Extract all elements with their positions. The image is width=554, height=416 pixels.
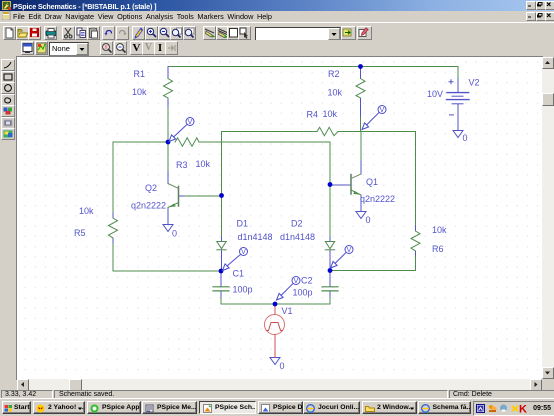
node B2 (Q2 base): [219, 193, 224, 198]
svg-text:R4: R4: [307, 110, 319, 120]
left tool palette: [0, 56, 16, 390]
ground 0 at Q2 emitter: [163, 225, 173, 232]
wire top rail: [168, 67, 458, 80]
wire R1 bottom to node VC2: [167, 107, 169, 142]
svg-text:K: K: [519, 403, 527, 414]
transistor Q2: [168, 184, 179, 208]
node D1/C1: [219, 269, 224, 274]
node R2/V2 top rail junction: [358, 64, 363, 69]
svg-text:R6: R6: [432, 244, 444, 254]
diode D1: [217, 242, 226, 250]
svg-text:R2: R2: [328, 69, 340, 79]
svg-text:10k: 10k: [432, 225, 447, 235]
svg-text:10k: 10k: [79, 206, 94, 216]
corner: [542, 379, 554, 390]
pin D1: [221, 237, 223, 271]
resistor R1: [164, 79, 173, 99]
svg-text:0: 0: [172, 229, 177, 239]
voltage marker V at node D1/C1: [223, 248, 248, 271]
h scrollbar: [17, 379, 542, 390]
wire bottom rail C1 to C2 via V1 node: [221, 297, 330, 304]
svg-text:10V: 10V: [427, 89, 443, 99]
svg-text:R5: R5: [74, 228, 86, 238]
svg-text:V1: V1: [282, 306, 293, 316]
pin R2 top: [360, 67, 362, 79]
svg-text:0: 0: [463, 133, 468, 143]
svg-text:V2: V2: [469, 78, 480, 88]
resistor R4: [317, 127, 338, 135]
node VC2 (R1/R3/Q2 collector): [166, 140, 171, 145]
resistor R6: [411, 231, 420, 251]
resistor R5: [109, 218, 118, 238]
svg-text:100p: 100p: [293, 288, 313, 298]
wire node VC1 to Q1 collector: [360, 132, 362, 162]
svg-text:d1n4148: d1n4148: [280, 232, 315, 242]
pin C1: [220, 271, 222, 297]
wire R4 left to Q2 base node: [222, 132, 318, 196]
wire node B2 to D1 anode: [221, 196, 223, 238]
svg-text:Q1: Q1: [366, 177, 378, 187]
svg-text:V: V: [294, 278, 299, 285]
wire R4 right to node VC1: [338, 131, 361, 133]
svg-text:10k: 10k: [323, 109, 338, 119]
resistor R3: [175, 138, 199, 146]
node V1: [273, 302, 278, 307]
svg-text:V: V: [241, 249, 246, 256]
pin R2 bottom: [360, 98, 362, 116]
resistor R2: [356, 79, 365, 99]
voltage marker V at node D2/C2: [331, 246, 354, 269]
pin Q2 emitter: [167, 208, 169, 225]
svg-text:0: 0: [280, 361, 285, 371]
svg-text:D2: D2: [291, 219, 303, 229]
capacitor C2: [322, 287, 338, 291]
pin Q2 base: [179, 195, 185, 197]
pin R1 top: [167, 67, 169, 79]
svg-text:R3: R3: [176, 160, 188, 170]
wire node VC1 to R6 top: [361, 132, 416, 227]
transistor Q1: [351, 174, 361, 195]
pin R5: [112, 213, 114, 243]
wire node B1 to D2 anode: [329, 185, 331, 238]
ground 0 at V1: [270, 358, 280, 365]
pin Q2 collector: [167, 172, 169, 184]
svg-text:10k: 10k: [328, 88, 343, 98]
Start button: [2, 401, 31, 414]
ground 0 at V2: [453, 131, 463, 138]
part combo: [255, 27, 341, 41]
svg-text:q2n2222: q2n2222: [360, 194, 395, 204]
pin C2: [329, 271, 331, 298]
wire R6 bottom to node D2C2: [330, 255, 416, 271]
wire node VC2 to Q2 collector: [167, 142, 169, 172]
voltage marker V at node VC1: [362, 106, 386, 130]
diode D2: [325, 242, 334, 250]
None combo: [49, 42, 89, 56]
pin R6: [415, 226, 417, 255]
v scrollbar: [542, 57, 554, 379]
pin R1 bottom: [167, 98, 169, 107]
svg-text:C1: C1: [233, 269, 245, 279]
pin Q1 collector: [360, 161, 362, 174]
svg-text:Q2: Q2: [145, 183, 157, 193]
svg-text:d1n4148: d1n4148: [238, 232, 273, 242]
node B1 (Q1 base): [328, 182, 333, 187]
pin Q1 base: [330, 184, 351, 186]
node D2/C2: [328, 268, 333, 273]
pin D2: [329, 237, 331, 271]
battery V2: [447, 79, 470, 130]
svg-text:V: V: [380, 107, 385, 114]
voltage marker V at node VC2: [169, 118, 194, 142]
svg-text:C2: C2: [301, 276, 313, 286]
wire R5 bottom to node D1C1: [113, 243, 221, 271]
svg-text:V: V: [188, 119, 193, 126]
svg-text:10k: 10k: [196, 159, 211, 169]
svg-text:D1: D1: [237, 219, 249, 229]
wire Q2 base to node B2: [184, 195, 222, 197]
svg-text:R1: R1: [134, 69, 146, 79]
wire R2 bottom to node VC1: [360, 116, 362, 132]
pulse source V1: [265, 304, 285, 358]
wire R3 right to Q1 base node: [199, 142, 330, 185]
ground 0 at Q1 emitter: [356, 212, 366, 219]
schematic canvas: [16, 56, 543, 380]
pin Q1 emitter: [360, 195, 362, 212]
tray: [473, 401, 554, 416]
svg-text:0: 0: [366, 215, 371, 225]
svg-text:100p: 100p: [233, 285, 253, 295]
voltage marker V at node V1: [277, 277, 301, 301]
svg-text:q2n2222: q2n2222: [131, 201, 166, 211]
wire node VC2 to R5 top: [113, 142, 168, 213]
capacitor C1: [213, 287, 229, 291]
svg-text:10k: 10k: [132, 87, 147, 97]
svg-text:V: V: [347, 247, 352, 254]
